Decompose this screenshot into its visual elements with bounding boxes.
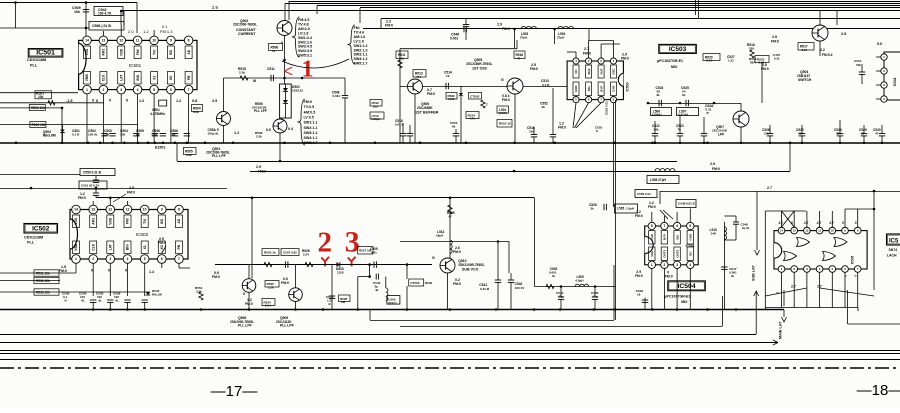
svg-text:1: 1 bbox=[302, 57, 314, 83]
svg-text:0: 0 bbox=[855, 221, 857, 225]
svg-text:L505: L505 bbox=[617, 207, 624, 211]
svg-text:6: 6 bbox=[170, 88, 172, 92]
svg-text:2.9: 2.9 bbox=[710, 162, 715, 166]
svg-text:16p: 16p bbox=[170, 132, 175, 136]
svg-text:2.7: 2.7 bbox=[817, 221, 822, 225]
svg-text:-1.5: -1.5 bbox=[66, 99, 73, 103]
svg-text:FM:0: FM:0 bbox=[648, 205, 656, 209]
svg-text:0.68µH: 0.68µH bbox=[652, 113, 662, 117]
svg-text:TV:0.5: TV:0.5 bbox=[304, 105, 315, 109]
svg-text:VDD: VDD bbox=[119, 48, 123, 56]
svg-text:L508 27µH: L508 27µH bbox=[650, 178, 667, 182]
svg-text:14: 14 bbox=[780, 229, 784, 233]
svg-text:5: 5 bbox=[144, 257, 146, 261]
svg-text:PLL LPF: PLL LPF bbox=[280, 324, 294, 328]
svg-text:100 4V: 100 4V bbox=[515, 286, 526, 290]
svg-text:2: 2 bbox=[102, 88, 104, 92]
svg-text:9L: 9L bbox=[116, 299, 120, 303]
svg-text:13: 13 bbox=[91, 208, 95, 212]
svg-text:4.7k: 4.7k bbox=[469, 117, 475, 121]
svg-text:0.31 B: 0.31 B bbox=[480, 287, 490, 291]
svg-text:GND: GND bbox=[574, 86, 578, 92]
svg-text:CDX1118M: CDX1118M bbox=[24, 236, 43, 240]
svg-text:27µH: 27µH bbox=[557, 35, 564, 39]
svg-text:1SS123: 1SS123 bbox=[292, 89, 303, 93]
svg-text:15k: 15k bbox=[529, 130, 534, 134]
svg-text:XO: XO bbox=[160, 244, 164, 249]
svg-text:47: 47 bbox=[448, 215, 452, 219]
svg-text:FM:4.5: FM:4.5 bbox=[298, 18, 309, 22]
svg-text:SW4:1.2: SW4:1.2 bbox=[354, 57, 368, 61]
svg-text:0: 0 bbox=[842, 221, 844, 225]
svg-text:0: 0 bbox=[108, 269, 110, 273]
svg-text:9: 9 bbox=[170, 39, 172, 43]
svg-text:2.7: 2.7 bbox=[829, 221, 834, 225]
svg-text:IC504: IC504 bbox=[677, 283, 695, 290]
svg-text:3.3k: 3.3k bbox=[193, 110, 199, 114]
svg-text:0.001: 0.001 bbox=[450, 37, 458, 41]
svg-text:474: 474 bbox=[416, 75, 421, 79]
svg-text:4: 4 bbox=[137, 88, 139, 92]
svg-text:E1501: E1501 bbox=[155, 146, 165, 150]
svg-text:2.7: 2.7 bbox=[791, 285, 796, 289]
svg-text:18µH: 18µH bbox=[436, 234, 443, 238]
svg-text:FM:0: FM:0 bbox=[158, 241, 166, 245]
svg-text:2.9: 2.9 bbox=[772, 35, 777, 39]
svg-text:CDX1118M: CDX1118M bbox=[27, 58, 46, 62]
svg-text:24k: 24k bbox=[654, 128, 659, 132]
svg-text:100p 9L: 100p 9L bbox=[208, 132, 220, 136]
svg-text:FM:0: FM:0 bbox=[385, 24, 393, 28]
svg-text:10: 10 bbox=[143, 208, 147, 212]
svg-text:SIG: SIG bbox=[587, 86, 591, 92]
svg-text:FM:0: FM:0 bbox=[59, 269, 67, 273]
svg-text:0.6: 0.6 bbox=[266, 128, 271, 132]
svg-text:VEE: VEE bbox=[650, 251, 654, 257]
svg-text:2.0: 2.0 bbox=[128, 29, 134, 34]
svg-text:0.01 B: 0.01 B bbox=[395, 123, 405, 127]
svg-text:IC5: IC5 bbox=[889, 238, 899, 244]
svg-text:100 9L: 100 9L bbox=[88, 132, 98, 136]
svg-text:2.2k: 2.2k bbox=[256, 134, 262, 138]
svg-text:REG.8M: REG.8M bbox=[43, 134, 56, 138]
svg-text:2: 2 bbox=[664, 263, 666, 267]
svg-text:FM:0: FM:0 bbox=[665, 275, 673, 279]
svg-text:15k: 15k bbox=[104, 132, 109, 136]
svg-text:11: 11 bbox=[126, 208, 130, 212]
svg-text:(OSC): (OSC) bbox=[499, 111, 508, 115]
svg-text:2.24: 2.24 bbox=[759, 60, 765, 64]
svg-text:TVI: TVI bbox=[152, 50, 156, 55]
svg-text:CT502: CT502 bbox=[470, 94, 480, 98]
svg-text:10k: 10k bbox=[74, 10, 80, 14]
svg-text:SW5:3.1: SW5:3.1 bbox=[298, 54, 312, 58]
svg-text:2: 2 bbox=[318, 227, 333, 259]
svg-text:9L: 9L bbox=[82, 299, 86, 303]
svg-text:SW1:1.1: SW1:1.1 bbox=[304, 121, 318, 125]
svg-text:12: 12 bbox=[805, 229, 809, 233]
svg-text:FM:0: FM:0 bbox=[502, 98, 510, 102]
svg-text:C507 0.82: C507 0.82 bbox=[283, 250, 297, 254]
svg-text:SW3:4.5: SW3:4.5 bbox=[298, 45, 312, 49]
svg-text:(OSC): (OSC) bbox=[388, 301, 397, 305]
svg-text:FMI: FMI bbox=[126, 218, 130, 224]
svg-text:1.2: 1.2 bbox=[143, 29, 149, 34]
svg-text:MAIN LAT: MAIN LAT bbox=[779, 321, 783, 339]
svg-text:G: G bbox=[501, 78, 504, 82]
svg-text:BUF: BUF bbox=[587, 68, 591, 74]
svg-text:<: < bbox=[283, 61, 293, 81]
svg-text:C511: C511 bbox=[267, 67, 275, 71]
svg-text:SUB VCO: SUB VCO bbox=[462, 268, 479, 272]
svg-text:CLK: CLK bbox=[102, 74, 106, 81]
svg-text:TV:4.6: TV:4.6 bbox=[354, 30, 365, 34]
svg-text:1: 1 bbox=[75, 257, 77, 261]
svg-text:FM:0: FM:0 bbox=[621, 57, 629, 61]
svg-text:7: 7 bbox=[188, 88, 190, 92]
svg-text:SUB LAT: SUB LAT bbox=[752, 265, 756, 281]
svg-text:18: 18 bbox=[637, 293, 641, 297]
svg-text:FM:0: FM:0 bbox=[712, 167, 720, 171]
svg-text:FM:: FM: bbox=[354, 26, 360, 30]
svg-text:SW5:1.7: SW5:1.7 bbox=[354, 62, 368, 66]
svg-text:12: 12 bbox=[119, 39, 123, 43]
svg-text:VBB: VBB bbox=[74, 243, 78, 251]
svg-text:5: 5 bbox=[153, 88, 155, 92]
svg-text:FMI: FMI bbox=[136, 49, 140, 55]
svg-text:2.7: 2.7 bbox=[779, 221, 784, 225]
svg-text:9: 9 bbox=[281, 41, 283, 45]
svg-text:FM:0: FM:0 bbox=[245, 302, 253, 306]
svg-text:LV:2.8: LV:2.8 bbox=[298, 31, 308, 35]
svg-text:VSS: VSS bbox=[74, 217, 78, 224]
svg-text:14: 14 bbox=[272, 49, 276, 53]
svg-text:PB: PB bbox=[187, 75, 191, 80]
svg-text:SN74: SN74 bbox=[889, 248, 898, 252]
svg-text:0.31: 0.31 bbox=[774, 56, 780, 60]
svg-text:2.24: 2.24 bbox=[802, 48, 808, 52]
svg-text:2.14: 2.14 bbox=[265, 304, 271, 308]
svg-text:BO: BO bbox=[160, 218, 164, 223]
svg-text:R530: R530 bbox=[425, 281, 433, 285]
svg-text:IC503: IC503 bbox=[669, 46, 687, 53]
svg-text:1: 1 bbox=[651, 263, 653, 267]
svg-text:2p 9L: 2p 9L bbox=[742, 226, 750, 230]
svg-text:1.2: 1.2 bbox=[176, 99, 181, 103]
svg-text:—17—: —17— bbox=[211, 383, 258, 400]
svg-text:1.31: 1.31 bbox=[728, 59, 734, 63]
svg-text:1ST OSC: 1ST OSC bbox=[472, 67, 488, 71]
svg-text:7: 7 bbox=[178, 257, 180, 261]
svg-text:14: 14 bbox=[85, 39, 89, 43]
svg-text:9L: 9L bbox=[657, 93, 661, 97]
svg-text:CURRENT: CURRENT bbox=[238, 32, 256, 36]
svg-text:7: 7 bbox=[486, 103, 488, 107]
svg-text:1: 1 bbox=[86, 88, 88, 92]
svg-text:6: 6 bbox=[161, 257, 163, 261]
svg-text:CLK: CLK bbox=[91, 243, 95, 250]
svg-text:13: 13 bbox=[793, 229, 797, 233]
svg-text:1155: 1155 bbox=[337, 271, 344, 275]
svg-text:FM:0: FM:0 bbox=[635, 274, 643, 278]
svg-text:AD: AD bbox=[187, 49, 191, 54]
svg-text:µPC1037GR-E1: µPC1037GR-E1 bbox=[657, 59, 683, 63]
svg-text:OSC: OSC bbox=[612, 67, 616, 74]
svg-text:IC505: IC505 bbox=[851, 256, 855, 265]
svg-text:SWITCH: SWITCH bbox=[798, 78, 812, 82]
svg-text:IC503: IC503 bbox=[626, 82, 630, 91]
svg-text:0.47µH: 0.47µH bbox=[678, 113, 688, 117]
svg-text:9L: 9L bbox=[376, 288, 380, 292]
svg-text:PB: PB bbox=[177, 244, 181, 249]
svg-text:1733: 1733 bbox=[448, 97, 455, 101]
svg-text:1.4: 1.4 bbox=[149, 270, 154, 274]
svg-text:PLL LPF: PLL LPF bbox=[254, 109, 267, 113]
svg-text:MIX: MIX bbox=[671, 65, 678, 69]
svg-text:GND: GND bbox=[689, 234, 693, 240]
svg-text:9: 9 bbox=[161, 208, 163, 212]
svg-text:0: 0 bbox=[126, 99, 128, 103]
svg-text:2.7: 2.7 bbox=[767, 186, 772, 190]
svg-text:OUT2: OUT2 bbox=[675, 250, 679, 258]
svg-text:SW4:1.1: SW4:1.1 bbox=[304, 136, 318, 140]
svg-text:4: 4 bbox=[689, 263, 691, 267]
svg-text:TV:4.8: TV:4.8 bbox=[298, 22, 309, 26]
svg-text:1ST BUFFER: 1ST BUFFER bbox=[415, 111, 439, 115]
svg-text:14H: 14H bbox=[711, 232, 717, 236]
svg-text:0: 0 bbox=[92, 99, 94, 103]
svg-text:CAR: CAR bbox=[650, 233, 654, 240]
svg-text:—18—: —18— bbox=[857, 382, 900, 399]
svg-text:9L: 9L bbox=[99, 299, 103, 303]
svg-text:27µH: 27µH bbox=[520, 35, 527, 39]
svg-text:7: 7 bbox=[664, 224, 666, 228]
svg-text:FM:0: FM:0 bbox=[304, 100, 312, 104]
svg-text:1.8µH: 1.8µH bbox=[626, 207, 634, 211]
svg-text:XO: XO bbox=[169, 75, 173, 80]
svg-text:6.3k: 6.3k bbox=[186, 153, 192, 157]
svg-text:7k: 7k bbox=[678, 128, 682, 132]
svg-text:10k: 10k bbox=[38, 95, 44, 99]
svg-text:47: 47 bbox=[875, 132, 879, 136]
svg-text:SW3:1.1: SW3:1.1 bbox=[304, 131, 318, 135]
svg-text:2.24: 2.24 bbox=[303, 253, 309, 257]
svg-text:0: 0 bbox=[91, 269, 93, 273]
svg-text:IC504: IC504 bbox=[686, 244, 695, 248]
svg-text:BO: BO bbox=[169, 49, 173, 54]
svg-text:LV:1.0: LV:1.0 bbox=[354, 39, 364, 43]
svg-text:IC501: IC501 bbox=[129, 63, 142, 68]
svg-text:0.01: 0.01 bbox=[371, 251, 377, 255]
svg-text:FM:0: FM:0 bbox=[258, 170, 266, 174]
svg-text:PLL: PLL bbox=[30, 64, 38, 68]
svg-text:C549: C549 bbox=[678, 202, 686, 206]
svg-text:8: 8 bbox=[651, 224, 653, 228]
svg-text:0.1 B: 0.1 B bbox=[542, 83, 550, 87]
svg-text:2.2k: 2.2k bbox=[268, 285, 274, 289]
svg-text:BIN: BIN bbox=[126, 244, 130, 250]
svg-text:FM:0: FM:0 bbox=[78, 196, 86, 200]
svg-text:BYP: BYP bbox=[599, 86, 603, 92]
svg-text:9L: 9L bbox=[731, 274, 735, 278]
svg-text:FM:0: FM:0 bbox=[212, 275, 220, 279]
svg-text:2.2: 2.2 bbox=[820, 48, 825, 52]
svg-text:SW2:1.0: SW2:1.0 bbox=[354, 48, 368, 52]
svg-text:0.38µH: 0.38µH bbox=[371, 117, 380, 121]
svg-text:3: 3 bbox=[109, 257, 111, 261]
svg-text:4: 4 bbox=[127, 257, 129, 261]
svg-text:1.2: 1.2 bbox=[139, 99, 144, 103]
svg-text:100 4.7K: 100 4.7K bbox=[98, 12, 112, 16]
svg-text:BIN: BIN bbox=[136, 74, 140, 80]
svg-text:SW5:1.7: SW5:1.7 bbox=[304, 141, 318, 145]
svg-text:FM:0: FM:0 bbox=[635, 214, 643, 218]
svg-text:3: 3 bbox=[676, 263, 678, 267]
svg-text:3k: 3k bbox=[591, 207, 595, 211]
svg-text:LV:0.5: LV:0.5 bbox=[304, 115, 314, 119]
svg-text:2.2k: 2.2k bbox=[239, 71, 245, 75]
svg-text:FM:0: FM:0 bbox=[281, 281, 289, 285]
svg-text:3: 3 bbox=[120, 88, 122, 92]
svg-text:LAT: LAT bbox=[109, 244, 113, 250]
svg-text:5k: 5k bbox=[452, 125, 456, 129]
svg-text:0.01 B: 0.01 B bbox=[686, 202, 696, 206]
svg-text:IC502: IC502 bbox=[136, 232, 149, 237]
svg-text:2SC3160R-7E6SL: 2SC3160R-7E6SL bbox=[466, 62, 492, 66]
svg-text:4.375MHz: 4.375MHz bbox=[150, 112, 165, 116]
svg-text:SW2:1.1: SW2:1.1 bbox=[304, 126, 318, 130]
svg-text:LAT: LAT bbox=[119, 75, 123, 81]
svg-text:R532 10k: R532 10k bbox=[36, 279, 50, 283]
svg-text:47p: 47p bbox=[558, 295, 563, 299]
svg-text:X1: X1 bbox=[143, 245, 147, 249]
svg-text:R523 1k: R523 1k bbox=[264, 250, 276, 254]
svg-text:FM:0: FM:0 bbox=[453, 282, 461, 286]
svg-text:CAR: CAR bbox=[612, 85, 616, 92]
svg-text:R6L.8K: R6L.8K bbox=[152, 293, 163, 297]
svg-text:VBB: VBB bbox=[85, 74, 89, 82]
svg-text:R533 10k: R533 10k bbox=[36, 291, 50, 295]
svg-text:OUT1: OUT1 bbox=[663, 250, 667, 258]
svg-text:VDD: VDD bbox=[109, 217, 113, 225]
svg-text:2.9: 2.9 bbox=[256, 165, 261, 169]
svg-text:2.9: 2.9 bbox=[841, 32, 846, 36]
svg-text:0: 0 bbox=[96, 99, 98, 103]
svg-text:LPF: LPF bbox=[718, 132, 724, 136]
svg-text:FM:0: FM:0 bbox=[771, 40, 779, 44]
svg-text:FM:0: FM:0 bbox=[127, 190, 135, 194]
svg-text:FM:0: FM:0 bbox=[583, 52, 591, 56]
svg-text:IC502: IC502 bbox=[32, 225, 50, 232]
svg-text:FM:0: FM:0 bbox=[502, 27, 510, 31]
svg-text:9L: 9L bbox=[552, 274, 556, 278]
svg-text:G: G bbox=[432, 256, 435, 260]
svg-text:TVI: TVI bbox=[143, 219, 147, 224]
svg-text:0.1 B: 0.1 B bbox=[72, 132, 80, 136]
svg-text:2: 2 bbox=[92, 257, 94, 261]
svg-text:SW1:1.2: SW1:1.2 bbox=[354, 44, 368, 48]
svg-text:0.8: 0.8 bbox=[192, 99, 197, 103]
svg-text:47p: 47p bbox=[593, 295, 598, 299]
svg-text:R531 10k: R531 10k bbox=[36, 272, 50, 276]
svg-text:100: 100 bbox=[120, 132, 125, 136]
svg-text:5.6: 5.6 bbox=[877, 42, 882, 46]
svg-text:R503 10k: R503 10k bbox=[32, 123, 46, 127]
svg-text:SW2:2.6: SW2:2.6 bbox=[298, 40, 312, 44]
svg-text:6: 6 bbox=[676, 224, 678, 228]
svg-text:FM:5.4: FM:5.4 bbox=[822, 53, 833, 57]
svg-text:CT503: CT503 bbox=[410, 281, 420, 285]
svg-text:15p: 15p bbox=[152, 132, 157, 136]
svg-text:2SC2990-7E6SL: 2SC2990-7E6SL bbox=[233, 23, 257, 27]
svg-text:0.4: 0.4 bbox=[288, 127, 293, 131]
svg-text:MIX: MIX bbox=[681, 300, 688, 304]
svg-text:FM:0: FM:0 bbox=[427, 92, 435, 96]
svg-text:2.9: 2.9 bbox=[212, 99, 217, 103]
svg-text:14: 14 bbox=[74, 208, 78, 212]
svg-text:0: 0 bbox=[109, 99, 111, 103]
svg-text:8: 8 bbox=[178, 208, 180, 212]
svg-text:11: 11 bbox=[818, 229, 821, 233]
svg-text:PLL LPF: PLL LPF bbox=[238, 324, 252, 328]
svg-text:2.9: 2.9 bbox=[212, 5, 218, 10]
svg-text:2.9: 2.9 bbox=[497, 23, 502, 27]
svg-text:2SC2685K: 2SC2685K bbox=[417, 106, 433, 110]
svg-text:9L: 9L bbox=[682, 93, 686, 97]
svg-text:15k: 15k bbox=[856, 63, 861, 67]
svg-text:R515 15: R515 15 bbox=[499, 122, 511, 126]
svg-text:2.7: 2.7 bbox=[804, 221, 809, 225]
svg-text:PLL: PLL bbox=[27, 241, 35, 245]
svg-text:8: 8 bbox=[188, 39, 190, 43]
svg-text:AM:1.6: AM:1.6 bbox=[354, 35, 366, 39]
svg-text:10: 10 bbox=[831, 229, 835, 233]
svg-text:0: 0 bbox=[125, 269, 127, 273]
svg-text:3k: 3k bbox=[542, 105, 546, 109]
svg-text:2.24: 2.24 bbox=[707, 59, 713, 63]
svg-text:IC504: IC504 bbox=[893, 78, 897, 87]
svg-text:SW3:1.1: SW3:1.1 bbox=[354, 53, 368, 57]
svg-text:AD: AD bbox=[177, 218, 181, 223]
svg-text:1k: 1k bbox=[446, 74, 450, 78]
svg-text:AM1: AM1 bbox=[102, 49, 106, 56]
svg-text:AM:0.5: AM:0.5 bbox=[304, 110, 316, 114]
svg-text:10: 10 bbox=[152, 39, 156, 43]
svg-text:X1: X1 bbox=[152, 76, 156, 80]
svg-text:5: 5 bbox=[689, 224, 691, 228]
svg-text:C550 0.31 B: C550 0.31 B bbox=[83, 171, 102, 175]
svg-text:PLL LPF: PLL LPF bbox=[212, 154, 226, 158]
svg-text:8p: 8p bbox=[136, 132, 140, 136]
svg-text:220: 220 bbox=[373, 104, 378, 108]
svg-text:C519 0.01: C519 0.01 bbox=[605, 101, 609, 115]
svg-text:SW1:2.4: SW1:2.4 bbox=[298, 36, 312, 40]
svg-text:OUT: OUT bbox=[599, 68, 603, 74]
svg-text:FM:1.3: FM:1.3 bbox=[160, 29, 173, 34]
svg-text:FM:0: FM:0 bbox=[453, 250, 461, 254]
svg-text:2SK2100R-7E6SL: 2SK2100R-7E6SL bbox=[458, 263, 484, 267]
svg-text:11: 11 bbox=[136, 39, 140, 43]
svg-text:1M: 1M bbox=[341, 300, 346, 304]
svg-text:FM:0: FM:0 bbox=[530, 67, 538, 71]
svg-text:47: 47 bbox=[517, 56, 521, 60]
svg-text:VSS: VSS bbox=[85, 48, 89, 55]
svg-text:5: 5 bbox=[243, 292, 245, 296]
svg-text:0.031: 0.031 bbox=[333, 94, 341, 98]
svg-text:IC501: IC501 bbox=[36, 50, 55, 57]
svg-text:FM:0: FM:0 bbox=[558, 126, 566, 130]
svg-text:AM:2.0: AM:2.0 bbox=[298, 27, 310, 31]
